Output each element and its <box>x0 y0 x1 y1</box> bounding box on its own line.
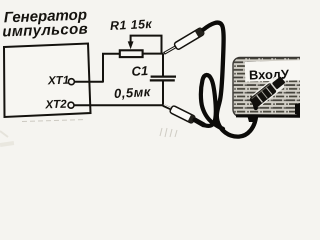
cable from bottom probe, hairpin loop <box>201 75 223 129</box>
capacitor C1 bottom plate <box>150 79 175 81</box>
svg-text:XT1: XT1 <box>47 75 69 88</box>
wire XT1 to riser <box>75 81 104 83</box>
svg-text:R1 15к: R1 15к <box>110 17 153 33</box>
bottom-left scan smudge <box>0 141 14 147</box>
top probe body <box>174 27 205 50</box>
cable from top probe to plug (big S sweep) <box>204 23 258 137</box>
bottom probe body <box>169 105 195 123</box>
svg-text:C1: C1 <box>131 63 148 79</box>
faint scan noise under generator box <box>22 120 86 122</box>
white label patch <box>245 60 302 81</box>
rubber foot under panel <box>247 115 257 122</box>
svg-text:ВходУ: ВходУ <box>249 66 290 82</box>
coax plug into ВходУ jack <box>251 76 286 107</box>
cable tail into plug <box>253 101 258 109</box>
wire R1 right lead to node <box>143 53 164 55</box>
svg-text:0,5мк: 0,5мк <box>114 84 152 101</box>
scan noise hatch marks below bottom probe <box>160 128 177 137</box>
oscilloscope box (Вход У panel) <box>233 58 308 117</box>
wire C1 bottom to node B <box>162 81 164 105</box>
right edge foot mark <box>295 103 300 115</box>
title text "Генератор импульсов" <box>2 7 89 41</box>
svg-text:XT2: XT2 <box>44 99 67 112</box>
svg-text:импульсов: импульсов <box>2 21 88 41</box>
capacitor C1 top plate <box>151 75 176 77</box>
terminal XT2 circle <box>68 102 74 108</box>
terminal XT1 circle <box>68 79 74 85</box>
top probe needle <box>164 46 177 53</box>
node A (R1/C1/probe junction) <box>162 54 164 76</box>
bottom probe needle <box>163 105 173 110</box>
bottom edge thick shadow <box>236 114 308 118</box>
wire XT2 to node B <box>74 104 163 106</box>
paper background <box>0 0 300 150</box>
coax plug body and nose <box>249 75 287 108</box>
generator box <box>4 44 91 118</box>
wiper arrowhead <box>128 41 134 49</box>
bottom probe rear grip <box>195 120 204 125</box>
wiper loop wire of R1 <box>131 36 162 54</box>
resistor R1 body <box>120 50 143 57</box>
wire riser up to R1 left lead <box>103 54 120 83</box>
